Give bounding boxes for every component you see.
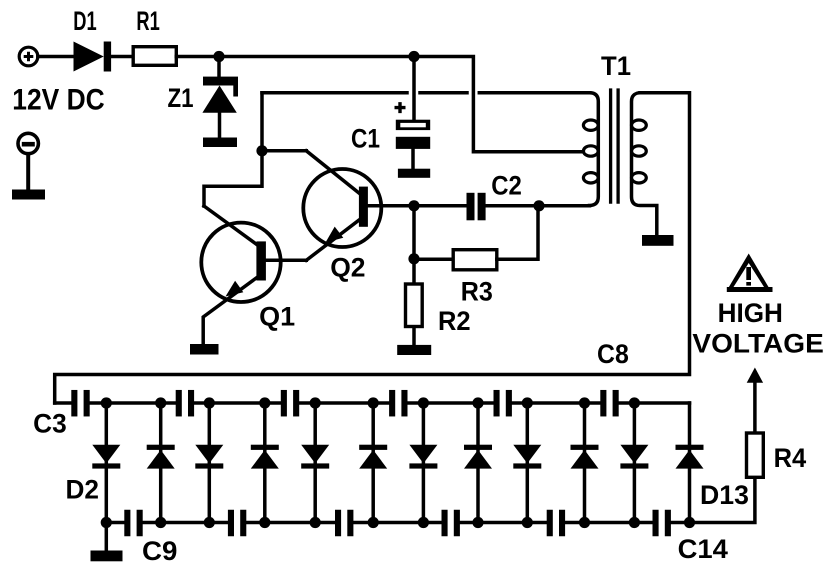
transistor Q1 <box>201 223 306 345</box>
node dot bottom row <box>629 517 640 528</box>
capacitor C4 <box>176 390 194 417</box>
wire R2 column <box>412 206 416 282</box>
svg-text:R3: R3 <box>461 277 493 307</box>
svg-text:Z1: Z1 <box>168 83 194 113</box>
transformer T1 primary winding <box>590 93 599 206</box>
wire column D13 <box>688 403 692 523</box>
ground (multiplier) <box>91 551 123 562</box>
node dot <box>213 51 224 62</box>
wire column D9 <box>476 403 480 523</box>
svg-text:R2: R2 <box>438 306 471 336</box>
capacitor C1 (electrolytic) <box>395 57 431 170</box>
node dot <box>408 51 419 62</box>
svg-text:C2: C2 <box>491 171 522 201</box>
node dot bottom row <box>472 517 483 528</box>
T1 secondary loop <box>632 173 647 183</box>
wire <box>414 204 467 208</box>
wire column D11 <box>583 403 587 523</box>
node dot <box>408 253 419 264</box>
node dot top row <box>418 397 429 408</box>
svg-text:VOLTAGE: VOLTAGE <box>692 328 823 358</box>
diode D4 <box>195 445 223 469</box>
wire column D4 <box>208 403 212 523</box>
node dot top row <box>101 397 112 408</box>
ground (minus terminal) <box>12 190 45 200</box>
node dot top row <box>310 397 321 408</box>
svg-text:T1: T1 <box>601 51 631 81</box>
diode D8 <box>409 445 437 469</box>
capacitor C7 <box>494 390 512 417</box>
node dot top row <box>472 397 483 408</box>
warning triangle <box>727 254 773 293</box>
node dot bottom row <box>418 517 429 528</box>
node dot top row <box>629 397 640 408</box>
transistor Q2 <box>303 169 414 260</box>
wire <box>486 204 590 208</box>
T1 secondary loop <box>632 120 647 130</box>
svg-text:C1: C1 <box>351 124 380 154</box>
node dot top row <box>204 397 215 408</box>
wire column D2 <box>105 403 109 523</box>
wire <box>38 55 74 59</box>
node dot bottom row <box>579 517 590 528</box>
diode D6 <box>301 445 329 469</box>
node dot top row <box>155 397 166 408</box>
ground (Q1 emitter) <box>190 344 219 355</box>
wire column D8 <box>422 403 426 523</box>
node dot <box>533 200 544 211</box>
ground (T1 secondary) <box>642 235 674 246</box>
resistor R3 <box>453 250 497 270</box>
capacitor C2 <box>467 193 486 221</box>
svg-text:C3: C3 <box>33 408 67 438</box>
arrow head (HV output) <box>747 368 763 383</box>
resistor R2 <box>406 284 423 327</box>
node dot top row <box>368 397 379 408</box>
T1 primary loop <box>583 120 598 130</box>
node dot bottom row <box>259 517 270 528</box>
node dot bottom row <box>101 517 112 528</box>
capacitor C3 <box>71 390 89 417</box>
svg-text:D13: D13 <box>700 480 749 510</box>
diode D13 <box>676 445 704 469</box>
T1 primary loop <box>583 146 598 156</box>
node dot top row <box>579 397 590 408</box>
capacitor C10 <box>228 510 246 537</box>
node dot bottom row <box>204 517 215 528</box>
svg-text:D2: D2 <box>66 475 100 505</box>
svg-text:R1: R1 <box>136 6 159 36</box>
wire output to R4 <box>690 479 755 523</box>
T1 core <box>611 88 619 203</box>
wire top rail to corner, down and to primary center tap <box>176 57 583 152</box>
svg-text:C14: C14 <box>678 534 728 564</box>
wire multiplier row <box>106 521 689 525</box>
terminal plus (12V DC +) <box>19 47 38 66</box>
wire Q1 collector diagonal <box>204 206 257 245</box>
wire multiplier ground <box>105 523 109 552</box>
resistor R4 <box>747 433 764 477</box>
T1 secondary loop <box>632 146 647 156</box>
diode D11 <box>571 445 599 469</box>
svg-text:C9: C9 <box>142 536 177 566</box>
node dot and collector feed wires <box>204 93 306 206</box>
capacitor C6 <box>389 390 407 417</box>
wire column D5 <box>263 403 267 523</box>
capacitor C5 <box>281 390 299 417</box>
wire y93 to transformer primary top (breaks at crossings) <box>262 91 407 95</box>
capacitor C8 <box>600 390 618 417</box>
resistor R1 <box>133 47 176 66</box>
wire column D6 <box>313 403 317 523</box>
node dot bottom row <box>310 517 321 528</box>
capacitor C14 <box>653 510 671 537</box>
diode D5 <box>251 445 279 469</box>
wire column D7 <box>371 403 375 523</box>
wire <box>26 154 30 191</box>
svg-text:C8: C8 <box>597 339 629 369</box>
diode D2 <box>92 445 120 469</box>
diode D10 <box>513 445 541 469</box>
wire column D12 <box>633 403 637 523</box>
capacitor C13 <box>547 510 565 537</box>
node dot top row <box>259 397 270 408</box>
wire Q2 collector diagonal <box>306 151 359 194</box>
wire R4 to arrow <box>753 382 757 431</box>
node dot top row <box>522 397 533 408</box>
wire R3 left lead <box>414 258 453 262</box>
diode D3 <box>147 445 175 469</box>
wire <box>412 328 416 345</box>
node dot (Q2 base / C2 / R2) <box>408 200 419 211</box>
capacitor C11 <box>335 510 353 537</box>
svg-text:Q1: Q1 <box>259 302 295 332</box>
svg-text:D1: D1 <box>73 6 96 36</box>
node dot bottom row <box>368 517 379 528</box>
wire column D10 <box>526 403 530 523</box>
node dot bottom row <box>155 517 166 528</box>
diode D9 <box>464 445 492 469</box>
wire R3 right lead up to C2 output <box>497 206 538 259</box>
wire <box>111 55 133 59</box>
capacitor C12 <box>442 510 460 537</box>
diode D7 <box>359 445 387 469</box>
zener Z1 <box>202 57 238 139</box>
node dot bottom row <box>684 517 695 528</box>
capacitor C9 <box>124 510 142 537</box>
ground (R2) <box>397 345 431 355</box>
svg-text:12V DC: 12V DC <box>12 84 104 117</box>
wire multiplier row <box>55 401 690 405</box>
node dot bottom row <box>522 517 533 528</box>
svg-text:Q2: Q2 <box>330 253 365 283</box>
diode D12 <box>620 445 648 469</box>
wire secondary top to multiplier rail <box>55 93 690 403</box>
ground (C1) <box>398 169 430 178</box>
ground (Z1) <box>203 138 237 148</box>
transformer T1 secondary winding <box>632 93 657 236</box>
wire column D3 <box>159 403 163 523</box>
svg-text:R4: R4 <box>774 443 807 473</box>
svg-text:HIGH: HIGH <box>718 298 783 328</box>
terminal minus <box>18 133 38 153</box>
diode D1 <box>74 42 112 72</box>
T1 primary loop <box>583 173 598 183</box>
